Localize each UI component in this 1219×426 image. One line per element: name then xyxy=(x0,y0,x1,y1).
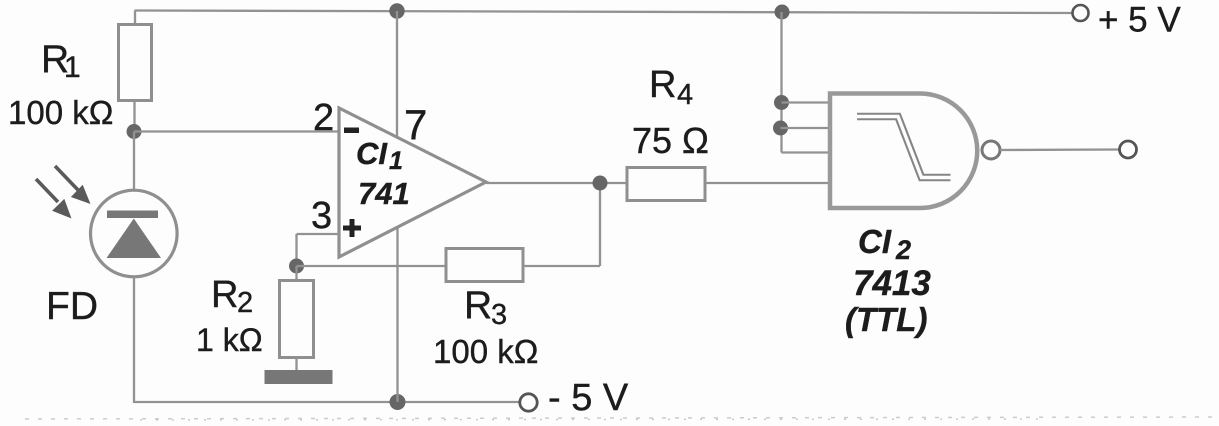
minus sign (inverting input) xyxy=(344,128,359,134)
wire: -5V bottom rail xyxy=(134,401,520,403)
wire: pin 3 to node B xyxy=(297,234,341,266)
svg-text:741: 741 xyxy=(358,176,410,211)
wire: photodiode to -5V rail xyxy=(133,277,135,404)
svg-text:2: 2 xyxy=(895,235,911,265)
svg-text:- 5 V: - 5 V xyxy=(548,377,629,419)
junction dot on -5V rail (op-amp pin 4) xyxy=(390,394,406,410)
svg-text:1: 1 xyxy=(389,147,403,175)
wire: gate input 3 xyxy=(782,151,831,153)
resistor R3 xyxy=(433,249,538,371)
wire: gate input 1 xyxy=(782,101,831,103)
wire: gate output xyxy=(1000,148,1119,151)
pin 7 label xyxy=(404,101,427,148)
junction dot gate input 1 xyxy=(774,95,789,110)
wire: node B to R3 xyxy=(297,265,448,267)
wire: +5V top rail xyxy=(135,11,1073,14)
light arrow 1 xyxy=(55,166,91,204)
svg-text:3: 3 xyxy=(491,299,507,331)
svg-text:1: 1 xyxy=(64,51,81,84)
NAND gate U2 CI2 7413 xyxy=(830,94,977,209)
svg-text:R: R xyxy=(649,64,676,106)
+5V terminal xyxy=(1073,1,1182,40)
wire: top rail to R1 xyxy=(134,11,136,27)
wire: +5V down to gate inputs xyxy=(780,12,782,153)
svg-text:2: 2 xyxy=(237,287,253,319)
svg-text:1 kΩ: 1 kΩ xyxy=(196,322,263,358)
svg-text:7413: 7413 xyxy=(853,264,931,303)
label FD xyxy=(46,285,98,328)
wire: node A to photodiode xyxy=(133,132,135,193)
wire: op-amp negative supply (pin 4) xyxy=(396,227,398,402)
junction dot on top rail (gate supply) xyxy=(775,5,790,20)
junction dot gate input 2 xyxy=(773,121,788,136)
svg-text:+ 5 V: + 5 V xyxy=(1098,1,1181,40)
svg-text:100 kΩ: 100 kΩ xyxy=(8,94,113,131)
output inversion bubble xyxy=(982,141,1000,159)
schmitt hysteresis symbol xyxy=(857,117,951,178)
svg-text:4: 4 xyxy=(677,79,693,111)
wire: op-amp output xyxy=(486,182,628,184)
svg-text:CI: CI xyxy=(356,136,388,171)
pin 3 label xyxy=(311,195,332,237)
node B junction dot (pin3/R2/R3) xyxy=(289,259,304,274)
wire: R3 to output node xyxy=(523,183,600,266)
svg-text:2: 2 xyxy=(313,97,334,139)
svg-text:(TTL): (TTL) xyxy=(845,301,927,338)
scan artifact: bottom speckle xyxy=(25,417,1219,420)
svg-text:R: R xyxy=(211,274,238,316)
svg-text:100 kΩ: 100 kΩ xyxy=(433,333,538,370)
node A junction dot (R1/FD/pin2) xyxy=(127,124,142,139)
svg-text:7: 7 xyxy=(404,101,427,148)
output node junction dot xyxy=(593,176,608,191)
svg-text:R: R xyxy=(464,284,492,327)
resistor R4 xyxy=(627,64,709,201)
svg-text:3: 3 xyxy=(311,195,332,237)
label CI2 7413 (TTL) xyxy=(845,223,931,338)
ground xyxy=(265,370,333,384)
svg-text:75 Ω: 75 Ω xyxy=(632,120,709,161)
light arrow 2 xyxy=(36,179,72,219)
resistor R2 xyxy=(196,266,314,371)
output terminal xyxy=(1120,141,1137,158)
plus sign (non-inverting input) xyxy=(343,219,361,237)
svg-text:CI: CI xyxy=(858,223,892,260)
junction dot on top rail (op-amp pin 7) xyxy=(389,3,404,18)
wire: node A to op-amp pin 2 xyxy=(134,130,340,132)
svg-text:FD: FD xyxy=(46,285,98,328)
-5V terminal xyxy=(520,377,629,419)
pin 2 label xyxy=(313,97,334,139)
wire: gate input 2 xyxy=(781,127,831,129)
wire: R1 bottom to node A xyxy=(133,100,135,133)
wire: op-amp positive supply pin 7 xyxy=(396,11,398,138)
wire: R4 to gate input xyxy=(705,182,830,184)
op-amp U1 CI1 741 xyxy=(339,108,486,257)
photodiode FD xyxy=(91,190,178,277)
resistor R1 xyxy=(8,25,152,132)
